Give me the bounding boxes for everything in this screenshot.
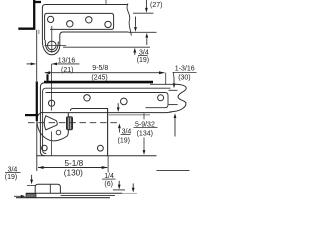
wire strap inner line [43, 88, 171, 153]
node knuckle housing view 2 [37, 113, 68, 141]
wire down arrow far [132, 183, 134, 188]
wire arrow right at peg [14, 195, 22, 197]
wire dim 5-1/8 [38, 167, 107, 169]
node inner plate view 1 [45, 13, 114, 40]
transistor clip pin retainer [66, 117, 72, 130]
wire frame face line below [36, 121, 38, 171]
node knuckle dot [56, 130, 61, 135]
node hole 1 view 2 [49, 100, 55, 106]
node hole C view 1 [86, 17, 92, 23]
wire thick strap top edge view 2 [44, 81, 153, 84]
node hole 4 view 2 [158, 95, 164, 101]
svg-text:5-1/8: 5-1/8 [65, 159, 84, 168]
node pocket line view 2 [70, 109, 108, 112]
node end cap strap tip view 2 [170, 84, 187, 112]
node hole 2 view 2 [84, 95, 90, 101]
wire dim up arrow strap end [174, 118, 176, 137]
wire strap bottom edge view 2 [40, 111, 171, 114]
node inner plate view 2 [46, 93, 169, 108]
wire dim up arrow to y47.2 [134, 53, 136, 55]
svg-text:(27): (27) [150, 2, 162, 9]
wire lower leaf bottom edge view 1 [63, 46, 150, 48]
wire line y189.9 [113, 189, 125, 191]
wire pin line view 3 [61, 194, 116, 196]
svg-text:(30): (30) [178, 74, 190, 81]
wire thick frame mid view 2 [25, 81, 38, 121]
wire dashed pin centerline view 2 [28, 122, 120, 124]
wire dim up arrow to y32 [146, 38, 148, 45]
capacitor pivot circle view 1 [48, 41, 57, 50]
node bump view 3 knuckle plan [35, 184, 60, 193]
svg-text:(134): (134) [137, 131, 153, 138]
wire ext line small top [105, 0, 107, 4]
node inner U arc view 1 [45, 40, 58, 52]
node leaf outline view 2 left [40, 83, 44, 156]
wire dim (27) down arrow [145, 0, 147, 8]
wire dim arrows mid 3/4 [117, 103, 119, 107]
wire dim 13/16 line with arrows [52, 63, 80, 65]
svg-text:9-5/8: 9-5/8 [92, 65, 108, 72]
wire thick door jamb section, view 1 [18, 0, 41, 29]
wire extension line y13 [133, 12, 154, 14]
transistor peg view 3 [26, 194, 36, 198]
node hole A view 1 [48, 16, 54, 22]
node hole B view 1 [67, 21, 73, 27]
svg-text:(19): (19) [118, 138, 130, 145]
wire ext vertical right [165, 73, 167, 85]
wire strap bottom line view 3 [16, 197, 110, 199]
svg-text:(130): (130) [64, 169, 83, 178]
wire dim 9-5/8 line [45, 72, 165, 74]
node hole row2 B [98, 145, 104, 151]
wire frame face line between views [36, 30, 38, 81]
svg-text:13/16: 13/16 [58, 58, 76, 65]
svg-text:(245): (245) [91, 75, 107, 82]
wire plate right edge x108 [107, 109, 109, 156]
wire leader down arrow to cap [173, 77, 175, 84]
wire down arrow bottom-left [31, 175, 33, 180]
svg-text:(6): (6) [104, 181, 113, 188]
node leaf outline view 1 [42, 5, 128, 55]
wire bottom edge view 2 with extension [36, 155, 156, 157]
wire lower leaf hint line [109, 114, 151, 116]
wire extension line y32 [129, 31, 157, 33]
wire thin top edge right [150, 83, 176, 85]
wire break squiggle view 1 [127, 4, 131, 36]
wire dim down arrow to y32 [135, 17, 137, 27]
wire ext line bump top [27, 184, 35, 186]
svg-text:1-3/16: 1-3/16 [175, 66, 195, 73]
node knuckle wedge [44, 116, 57, 130]
node hole D view 1 [105, 21, 111, 27]
wire frame stub [38, 30, 40, 34]
wire dim 5-9/32 ext and down arrow [143, 113, 145, 119]
svg-text:(19): (19) [137, 57, 149, 64]
wire line y170 right [157, 169, 190, 171]
node hole row2 A [42, 145, 48, 151]
wire crosshair view 1 [45, 44, 67, 46]
node hole 3 view 2 [121, 98, 128, 105]
wire ext vertical hole1 centerline [51, 64, 53, 155]
wire down arrow 1/4 [118, 181, 120, 185]
wire faint ext line [122, 192, 137, 194]
wire strap top line view 3 [26, 192, 123, 194]
wire thick frame stub view 2 [46, 74, 48, 81]
svg-text:(19): (19) [5, 174, 17, 181]
